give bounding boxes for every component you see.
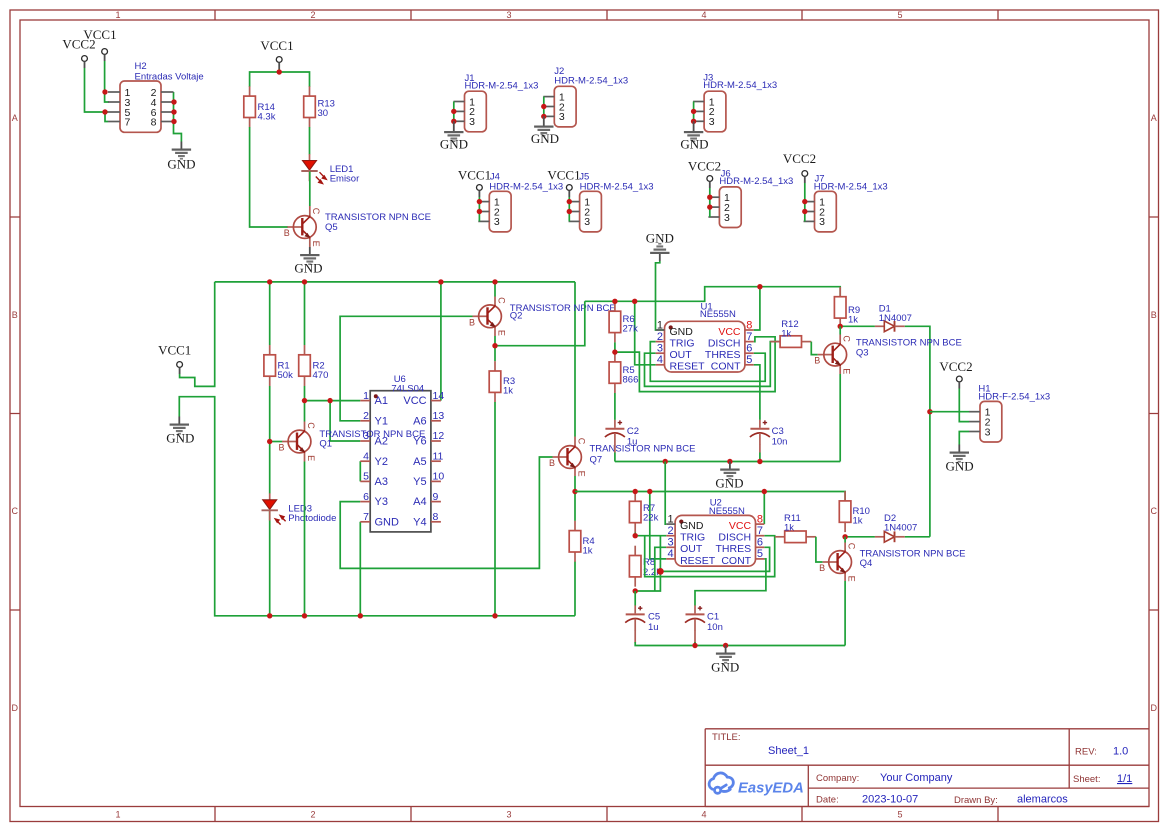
svg-text:3: 3 xyxy=(506,810,511,820)
svg-text:Your Company: Your Company xyxy=(880,772,953,784)
svg-text:13: 13 xyxy=(433,410,445,422)
junctions U1 rails xyxy=(612,284,762,355)
capacitor C3 xyxy=(750,420,770,445)
wire U2 VCC rail xyxy=(575,492,845,502)
wire U2 pin8 from rail xyxy=(763,492,765,525)
wire LED1 to Q5 collector xyxy=(309,172,311,207)
svg-text:1N4007: 1N4007 xyxy=(879,313,912,324)
wire Q3 emitter to GND rail xyxy=(835,365,840,367)
ground below J1 xyxy=(453,121,455,124)
net flag VCC2 (J7) xyxy=(802,171,808,183)
wire J1 pins to GND xyxy=(453,102,455,122)
svg-text:VCC1: VCC1 xyxy=(547,168,580,183)
svg-text:A1: A1 xyxy=(375,395,388,407)
resistor R7 xyxy=(629,492,641,533)
svg-text:GND: GND xyxy=(167,157,195,172)
svg-text:1.0: 1.0 xyxy=(1113,746,1128,758)
junction R10/D2 xyxy=(842,534,847,539)
net flag VCC1 (J4) xyxy=(477,185,483,197)
ground below H1 xyxy=(950,445,969,463)
connector J3 xyxy=(693,91,726,132)
svg-text:A: A xyxy=(12,113,18,123)
svg-text:14: 14 xyxy=(433,390,445,402)
wire J2 pins to GND xyxy=(543,97,545,117)
svg-text:5: 5 xyxy=(897,810,902,820)
wire VCC1 to H2 pin1/pin3 xyxy=(105,61,109,102)
svg-text:2023-10-07: 2023-10-07 xyxy=(862,794,918,806)
net flag VCC1 xyxy=(102,49,108,61)
svg-text:GND: GND xyxy=(294,261,322,276)
svg-text:VCC1: VCC1 xyxy=(458,168,491,183)
svg-text:A6: A6 xyxy=(413,415,426,427)
wire VCC1 to J5 xyxy=(568,197,570,221)
wire R2 column xyxy=(304,282,306,616)
svg-text:TRANSISTOR NPN BCE: TRANSISTOR NPN BCE xyxy=(856,338,962,349)
svg-text:Q5: Q5 xyxy=(325,222,338,233)
svg-text:5: 5 xyxy=(363,471,369,483)
svg-text:1: 1 xyxy=(115,810,120,820)
svg-text:Date:: Date: xyxy=(816,795,839,806)
svg-text:Entradas Voltaje: Entradas Voltaje xyxy=(135,72,204,83)
svg-text:A: A xyxy=(1151,113,1157,123)
wire U6 Y2-A3 bracket xyxy=(359,461,361,481)
svg-text:10n: 10n xyxy=(707,622,723,633)
wire U1 CONT to C3 xyxy=(754,365,760,420)
ground below U2 rail xyxy=(716,646,735,664)
wire J3 pins to GND xyxy=(693,102,695,122)
wire D1 output to H1/D2 junction xyxy=(840,326,930,537)
svg-text:A3: A3 xyxy=(375,476,388,488)
junctions top rail xyxy=(267,279,498,284)
svg-text:5: 5 xyxy=(897,10,902,20)
LED LED3 xyxy=(262,493,278,520)
svg-text:10: 10 xyxy=(433,471,445,483)
connector J7 xyxy=(804,191,837,232)
resistor R1 xyxy=(264,345,276,386)
svg-text:VCC1: VCC1 xyxy=(158,343,191,358)
resistor R6 xyxy=(609,301,621,342)
junction R7/R8 xyxy=(634,533,636,536)
svg-text:VCC2: VCC2 xyxy=(783,151,816,166)
resistor R14 xyxy=(244,86,256,127)
net flag VCC2 (J6) xyxy=(707,176,713,188)
IC U6 74LS04 xyxy=(360,374,444,532)
svg-text:GND: GND xyxy=(166,431,194,446)
wire U2 GND rail xyxy=(635,642,845,646)
wire C2 to GND rail xyxy=(614,445,616,453)
svg-text:A5: A5 xyxy=(413,456,426,468)
IC U1 NE555N xyxy=(656,319,754,372)
svg-text:D: D xyxy=(11,703,18,713)
wire U1 OUT to R12 loop xyxy=(645,342,780,387)
svg-text:Emisor: Emisor xyxy=(330,174,360,185)
net flag VCC1 (left) xyxy=(177,362,183,374)
svg-text:11: 11 xyxy=(433,450,444,462)
resistor R4 xyxy=(569,521,581,562)
svg-text:866: 866 xyxy=(623,375,639,386)
wire VCC2 to H2 pin5 xyxy=(85,68,109,122)
ground below J3 xyxy=(693,121,695,124)
svg-text:B: B xyxy=(12,310,18,320)
svg-text:Q4: Q4 xyxy=(860,558,873,569)
wire VCC2 to J6 xyxy=(709,188,711,217)
resistor R5 xyxy=(609,352,621,393)
connector J2 xyxy=(543,86,576,127)
junction xyxy=(277,69,282,74)
wire Q7 emitter to R4 and U2 rail xyxy=(574,468,576,476)
svg-text:TRANSISTOR NPN BCE: TRANSISTOR NPN BCE xyxy=(319,429,425,440)
wire U2 OUT drop xyxy=(655,547,667,591)
wire Q4 emitter to GND rail xyxy=(844,574,846,582)
wire C3 to GND rail xyxy=(759,445,761,453)
wire R11 to Q4 base xyxy=(816,537,823,562)
wire U1 TRIG-THRES loop xyxy=(650,342,765,382)
svg-text:VCC2: VCC2 xyxy=(939,359,972,374)
resistor R2 xyxy=(299,345,311,386)
svg-text:C: C xyxy=(11,506,18,516)
svg-text:Company:: Company: xyxy=(816,773,859,784)
transistor Q4 xyxy=(819,543,856,582)
wire Q1 collector/emitter leads xyxy=(304,422,306,431)
svg-text:27k: 27k xyxy=(623,324,639,335)
svg-text:8: 8 xyxy=(433,511,439,523)
svg-text:1k: 1k xyxy=(503,386,513,397)
svg-text:4: 4 xyxy=(701,810,706,820)
wire U2 THRES loop xyxy=(660,547,769,571)
transistor Q1 xyxy=(279,422,316,461)
inverted ground above U1 xyxy=(650,243,669,261)
wire Q1 base xyxy=(270,441,283,443)
svg-text:1k: 1k xyxy=(853,515,863,526)
ground below H2 xyxy=(172,142,191,160)
resistor R10 xyxy=(839,491,851,532)
resistor R8 xyxy=(629,546,641,587)
ground below J2 xyxy=(543,116,545,118)
transistor Q3 xyxy=(814,335,851,374)
svg-text:GND: GND xyxy=(711,660,739,675)
wire U1 DISCH to R6/R5 loop xyxy=(615,337,775,392)
svg-text:10n: 10n xyxy=(772,437,788,448)
wire R10 to Q4 collector xyxy=(844,537,846,543)
wire R6 to R5 junction xyxy=(614,342,616,352)
svg-text:HDR-M-2.54_1x3: HDR-M-2.54_1x3 xyxy=(814,182,888,193)
svg-text:REV:: REV: xyxy=(1075,747,1097,758)
wire R9 to Q3 collector xyxy=(839,326,841,334)
svg-text:alemarcos: alemarcos xyxy=(1017,794,1068,806)
capacitor C2 xyxy=(605,420,625,445)
connector J4 xyxy=(478,191,511,232)
svg-text:GND: GND xyxy=(680,137,708,152)
svg-text:GND: GND xyxy=(440,137,468,152)
svg-text:1: 1 xyxy=(115,10,120,20)
svg-text:Y5: Y5 xyxy=(413,476,426,488)
svg-text:Sheet:: Sheet: xyxy=(1073,774,1100,785)
wire VCC2 to H1 pin2 xyxy=(959,389,969,422)
svg-text:Y1: Y1 xyxy=(375,415,388,427)
svg-text:HDR-M-2.54_1x3: HDR-M-2.54_1x3 xyxy=(489,182,563,193)
svg-text:Q7: Q7 xyxy=(590,455,603,466)
ground below U1 rail xyxy=(720,462,739,480)
EasyEDA logo xyxy=(709,773,733,793)
svg-text:TRANSISTOR NPN BCE: TRANSISTOR NPN BCE xyxy=(860,549,966,560)
junctions bottom rail xyxy=(267,613,498,618)
connector J5 xyxy=(569,191,602,232)
wire VCC2 to J7 xyxy=(804,183,806,221)
svg-text:Drawn By:: Drawn By: xyxy=(954,795,998,806)
svg-text:7: 7 xyxy=(363,511,369,523)
svg-text:2: 2 xyxy=(363,410,369,422)
svg-text:A4: A4 xyxy=(413,496,426,508)
wire U2 CONT to C1 xyxy=(695,559,766,606)
net flag VCC1 (J5) xyxy=(566,185,572,197)
diode D2 xyxy=(875,531,905,542)
svg-text:12: 12 xyxy=(433,430,445,442)
title block xyxy=(705,729,1149,807)
connector H2 xyxy=(108,61,204,132)
svg-text:1/1: 1/1 xyxy=(1117,773,1132,785)
connector J1 xyxy=(454,91,487,132)
wire VCC1 to J4 xyxy=(478,197,480,221)
svg-text:TRANSISTOR NPN BCE: TRANSISTOR NPN BCE xyxy=(510,303,616,314)
svg-text:TRANSISTOR NPN BCE: TRANSISTOR NPN BCE xyxy=(325,212,431,223)
net flag VCC1 (Q5 column) xyxy=(276,57,282,69)
svg-text:74LS04: 74LS04 xyxy=(391,384,424,395)
svg-text:HDR-M-2.54_1x3: HDR-M-2.54_1x3 xyxy=(580,182,654,193)
svg-text:2: 2 xyxy=(310,810,315,820)
svg-text:TRANSISTOR NPN BCE: TRANSISTOR NPN BCE xyxy=(590,444,696,455)
wire H2 right pins to GND xyxy=(174,92,182,142)
wire R5 to C2 xyxy=(614,393,616,420)
capacitor C1 xyxy=(685,605,705,630)
wire U1 GND rail xyxy=(615,461,840,463)
svg-text:GND: GND xyxy=(646,231,674,246)
svg-text:C1: C1 xyxy=(707,612,719,623)
wire R1 column xyxy=(269,282,271,616)
wire VCC1 rail to R14/R13 xyxy=(250,69,310,87)
resistor R13 xyxy=(304,86,316,127)
svg-text:Q1: Q1 xyxy=(319,439,332,450)
svg-text:1k: 1k xyxy=(583,546,593,557)
wire Q2 base to U6 Y1 xyxy=(340,316,472,421)
diode D1 xyxy=(875,321,905,332)
svg-text:Y4: Y4 xyxy=(413,516,426,528)
resistor R3 xyxy=(489,361,501,402)
wire junction to H1 pin1 xyxy=(930,411,969,413)
wire Q7 collector lead xyxy=(574,437,576,446)
resistor R11 xyxy=(775,531,816,543)
wire U2 pin1 from GND rail xyxy=(665,462,666,525)
svg-text:50k: 50k xyxy=(278,370,294,381)
junctions U2 xyxy=(633,489,768,594)
svg-text:C3: C3 xyxy=(772,426,784,437)
svg-text:1u: 1u xyxy=(648,622,659,633)
wire U6 VCC pin14 to rail xyxy=(440,282,442,401)
wire R14 to Q5 base xyxy=(250,127,288,227)
svg-text:Q2: Q2 xyxy=(510,311,523,322)
svg-text:4.3k: 4.3k xyxy=(258,112,276,123)
LED LED1 xyxy=(301,154,317,181)
svg-text:22k: 22k xyxy=(643,513,659,524)
svg-text:GND: GND xyxy=(715,476,743,491)
svg-text:VCC2: VCC2 xyxy=(62,37,95,52)
junction R9/D1 xyxy=(838,324,843,329)
svg-text:HDR-M-2.54_1x3: HDR-M-2.54_1x3 xyxy=(719,176,793,187)
junctions A1 net xyxy=(302,398,333,403)
svg-text:NE555N: NE555N xyxy=(709,506,745,517)
svg-text:VCC: VCC xyxy=(403,395,426,407)
wire R12 to Q3 base xyxy=(811,342,817,355)
wire VCC1 top rail of left block xyxy=(215,282,575,437)
svg-text:EasyEDA: EasyEDA xyxy=(738,781,804,797)
svg-text:C: C xyxy=(1150,506,1157,516)
svg-text:Photodiode: Photodiode xyxy=(288,513,336,524)
wire U2 DISCH to R11 loop xyxy=(645,536,775,577)
net flag VCC2 (H1) xyxy=(956,376,962,388)
wire Q2 emitter to R3 and U1 rail stub xyxy=(494,328,496,336)
wire U2 TRIG net xyxy=(635,536,666,591)
resistor R12 xyxy=(770,336,811,348)
svg-text:VCC1: VCC1 xyxy=(260,38,293,53)
svg-text:GND: GND xyxy=(375,516,400,528)
connector J6 xyxy=(708,187,741,228)
svg-text:6: 6 xyxy=(363,491,369,503)
svg-text:30: 30 xyxy=(318,108,329,119)
svg-text:7: 7 xyxy=(125,116,131,128)
svg-text:1k: 1k xyxy=(784,523,794,534)
svg-text:9: 9 xyxy=(433,491,439,503)
svg-text:VCC2: VCC2 xyxy=(688,158,721,173)
svg-text:4: 4 xyxy=(363,450,369,462)
wire U1 VCC rail xyxy=(585,287,840,302)
wire U6 GND pin7 to bottom rail xyxy=(359,522,361,616)
wire U1 pin8 from rail xyxy=(754,287,760,330)
svg-text:470: 470 xyxy=(313,370,329,381)
svg-text:HDR-F-2.54_1x3: HDR-F-2.54_1x3 xyxy=(978,392,1050,403)
svg-text:HDR-M-2.54_1x3: HDR-M-2.54_1x3 xyxy=(703,80,777,91)
ground flag (left) xyxy=(170,417,189,435)
svg-text:3: 3 xyxy=(506,10,511,20)
Q5 emitter to ground xyxy=(309,239,311,248)
wire Q2 collector xyxy=(494,282,496,297)
svg-text:2: 2 xyxy=(310,10,315,20)
svg-text:C2: C2 xyxy=(627,426,639,437)
connector H1 xyxy=(969,401,1002,442)
wire left rail down to VCC1 flag xyxy=(180,282,215,387)
svg-text:1: 1 xyxy=(363,390,369,402)
svg-text:Q3: Q3 xyxy=(856,348,869,359)
svg-text:1N4007: 1N4007 xyxy=(884,523,917,534)
svg-text:HDR-M-2.54_1x3: HDR-M-2.54_1x3 xyxy=(554,76,628,87)
wire H1 pin3 to GND xyxy=(959,432,969,445)
wire GND flag to bottom rail xyxy=(179,397,575,616)
svg-text:HDR-M-2.54_1x3: HDR-M-2.54_1x3 xyxy=(465,81,539,92)
svg-text:Sheet_1: Sheet_1 xyxy=(768,745,809,757)
wire U2 RESET from rail xyxy=(650,492,667,559)
svg-text:1k: 1k xyxy=(848,315,858,326)
transistor Q2 xyxy=(469,297,506,336)
transistor Q5 xyxy=(284,208,321,247)
wire R13 to LED1 xyxy=(309,127,311,155)
IC U2 NE555N xyxy=(666,513,764,566)
svg-text:1k: 1k xyxy=(781,329,791,340)
transistor Q7 xyxy=(549,438,586,477)
svg-text:GND: GND xyxy=(946,459,974,474)
capacitor C5 xyxy=(634,591,636,606)
wire U6 Y3 to Q7 base xyxy=(340,457,552,568)
svg-text:C5: C5 xyxy=(648,612,660,623)
wire GND to U1 pin1 xyxy=(656,261,665,330)
svg-text:B: B xyxy=(1151,310,1157,320)
svg-text:GND: GND xyxy=(531,131,559,146)
svg-text:NE555N: NE555N xyxy=(700,309,736,320)
svg-text:Y2: Y2 xyxy=(375,456,388,468)
wire U6 A1 net xyxy=(305,401,361,441)
svg-text:8: 8 xyxy=(151,116,157,128)
net flag VCC2 xyxy=(82,56,88,68)
junction H1 feed xyxy=(927,409,932,414)
svg-text:1u: 1u xyxy=(627,437,638,448)
junction dots H2 xyxy=(102,89,176,124)
svg-text:D: D xyxy=(1150,703,1157,713)
wire R3 to bottom rail xyxy=(494,402,496,616)
resistor R9 xyxy=(834,287,846,328)
svg-text:TITLE:: TITLE: xyxy=(712,732,741,743)
wire U1 RESET from rail xyxy=(635,301,656,365)
svg-text:H2: H2 xyxy=(135,61,147,72)
svg-text:4: 4 xyxy=(701,10,706,20)
svg-text:Y3: Y3 xyxy=(375,496,388,508)
